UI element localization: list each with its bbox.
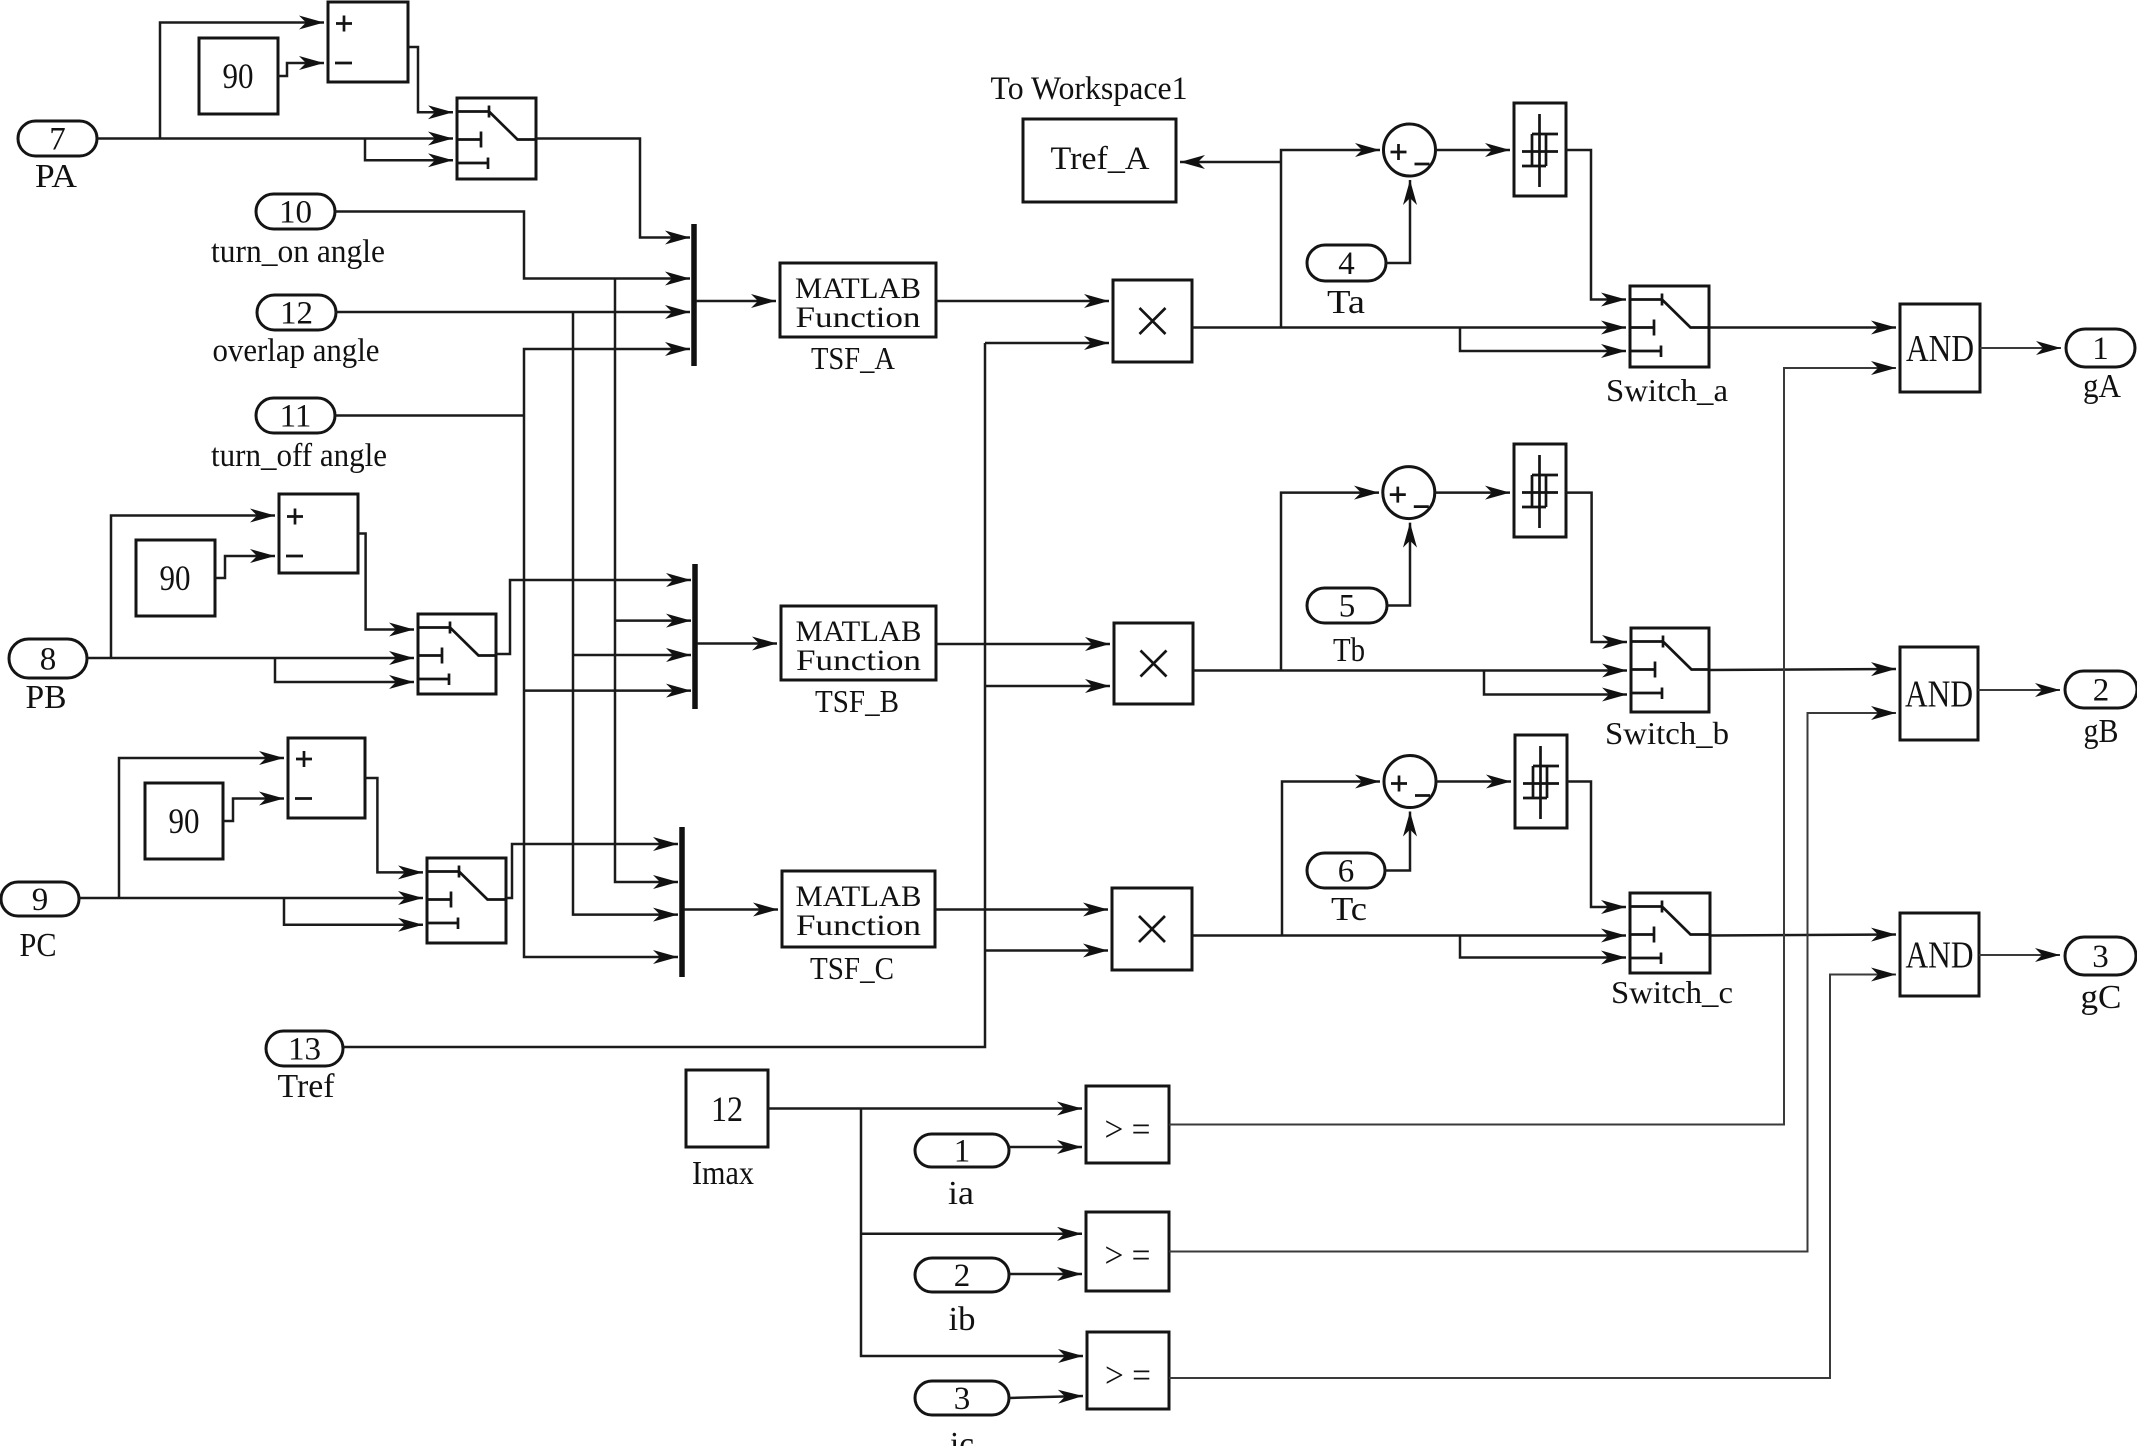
input port 4 xyxy=(1307,245,1386,281)
Imax bus vertical xyxy=(861,1109,1083,1357)
To Workspace block Tref_A xyxy=(1023,119,1176,202)
input port 11 xyxy=(256,398,335,433)
constant 90 C xyxy=(145,783,223,859)
wire ic to GE c input 2 xyxy=(1009,1396,1083,1398)
wire GE c to AND C input 2 xyxy=(1169,975,1896,1379)
svg-text:Tref_A: Tref_A xyxy=(1051,141,1150,177)
svg-text:8: 8 xyxy=(40,642,57,678)
svg-text:ic: ic xyxy=(950,1426,974,1446)
svg-text:3: 3 xyxy=(2092,939,2109,975)
wire sum C to switch input 1 xyxy=(365,778,423,872)
wire TSF_C to product C xyxy=(935,908,1108,911)
wire mux B to MATLAB TSF_B xyxy=(697,642,777,645)
comparator GE a xyxy=(1086,1086,1169,1163)
wire port 11 to turn_off bus xyxy=(335,414,524,417)
wire constant 90 B to sum minus xyxy=(215,556,275,578)
wire GE b to AND B input 2 xyxy=(1169,713,1896,1252)
overlap bus vertical xyxy=(573,312,678,915)
wire feedback riser to sum plus B xyxy=(111,516,275,659)
wire feedback riser to sum plus C xyxy=(119,758,284,898)
wire port 10 to mux A input 2 xyxy=(335,212,690,279)
wire riser product C to sum circle C xyxy=(1282,782,1380,936)
svg-text:2: 2 xyxy=(954,1258,971,1294)
svg-text:12: 12 xyxy=(280,296,313,332)
wire junction to Switch_a input 3 xyxy=(1460,328,1626,352)
input port 6 xyxy=(1307,853,1385,888)
wire Tref to product C input 2 xyxy=(985,949,1108,952)
svg-text:12: 12 xyxy=(711,1089,743,1129)
svg-text:gA: gA xyxy=(2083,368,2121,405)
wire port 6 to sum circle C xyxy=(1385,812,1410,871)
svg-text:90: 90 xyxy=(169,801,200,841)
wire port 4 to sum circle A xyxy=(1386,180,1410,263)
sum block C xyxy=(288,738,365,818)
input port 1 ia xyxy=(915,1134,1009,1167)
wire GE a to AND A input 2 xyxy=(1169,368,1896,1125)
svg-text:1: 1 xyxy=(2092,331,2109,367)
wire turn_off bus to mux B input 4 xyxy=(524,689,691,692)
wire switch PA to mux A input 1 xyxy=(536,139,690,238)
wire product C to Switch_c input 2 xyxy=(1192,934,1626,937)
wire sum circle B to relay B xyxy=(1435,491,1510,494)
svg-text:AND: AND xyxy=(1906,935,1974,977)
wire turn_off bus to mux A input 4 xyxy=(524,349,690,416)
wire Switch_b to AND B xyxy=(1709,669,1896,670)
product C xyxy=(1112,888,1192,970)
svg-text:PC: PC xyxy=(20,927,57,964)
wire relay B to Switch_b input 1 xyxy=(1566,493,1627,642)
wire Tref to product A input 2 xyxy=(985,342,1109,345)
relay C xyxy=(1515,735,1567,828)
wire constant 90 C to sum minus xyxy=(223,799,284,822)
svg-text:TSF_C: TSF_C xyxy=(810,950,894,986)
MATLAB Function TSF_A xyxy=(780,263,936,337)
svg-text:> =: > = xyxy=(1105,1355,1151,1395)
wire port 12 to mux A input 3 xyxy=(335,311,690,314)
switch PC xyxy=(427,858,506,943)
svg-text:7: 7 xyxy=(49,122,66,158)
svg-text:5: 5 xyxy=(1339,589,1356,625)
input port 9 xyxy=(1,882,79,916)
svg-text:10: 10 xyxy=(279,195,312,231)
wire sum circle A to relay A xyxy=(1436,149,1511,152)
wire Tref to products riser xyxy=(343,343,985,1047)
wire AND C to output 3 xyxy=(1979,954,2060,956)
input port 10 xyxy=(256,194,335,229)
product B xyxy=(1114,623,1193,704)
svg-text:13: 13 xyxy=(288,1032,321,1068)
wire mux C to MATLAB TSF_C xyxy=(684,908,778,911)
input port 7 xyxy=(18,121,97,156)
svg-text:ia: ia xyxy=(948,1175,974,1212)
wire switch PC to mux C input 1 xyxy=(506,844,678,898)
svg-text:Tref: Tref xyxy=(278,1068,336,1105)
sum block B xyxy=(279,494,358,573)
output port 3 xyxy=(2065,937,2136,975)
wire product B to Switch_b input 2 xyxy=(1193,669,1627,672)
MATLAB Function TSF_C xyxy=(782,871,935,947)
svg-text:overlap angle: overlap angle xyxy=(213,333,380,369)
wire constant 90 A to sum minus xyxy=(278,63,324,76)
wire mux A to MATLAB TSF_A xyxy=(696,300,776,303)
wire junction to switch input 3 C xyxy=(284,898,423,925)
wire TSF_B to product B xyxy=(936,643,1110,646)
constant 90 B xyxy=(136,540,215,616)
svg-text:3: 3 xyxy=(954,1381,971,1417)
svg-text:9: 9 xyxy=(32,882,49,918)
wire riser product A to sum circle A xyxy=(1281,150,1380,328)
MATLAB Function TSF_B xyxy=(781,606,936,680)
svg-text:PB: PB xyxy=(26,679,67,716)
wire port 7 to switch input 2 xyxy=(97,137,453,140)
input port 12 xyxy=(257,295,336,330)
output port 1 xyxy=(2066,329,2135,367)
comparator GE c xyxy=(1087,1332,1169,1409)
svg-text:gC: gC xyxy=(2081,979,2122,1016)
svg-text:gB: gB xyxy=(2084,713,2119,750)
wire switch PB to mux B input 1 xyxy=(496,580,691,654)
sum circle C xyxy=(1384,756,1436,808)
svg-text:11: 11 xyxy=(280,399,312,435)
switch PB xyxy=(418,614,496,694)
wire Tref to product B input 2 xyxy=(985,685,1110,688)
comparator GE b xyxy=(1086,1212,1169,1291)
mux A xyxy=(691,224,697,366)
svg-text:TSF_B: TSF_B xyxy=(815,683,899,719)
constant 90 A xyxy=(199,38,278,114)
svg-text:6: 6 xyxy=(1338,854,1355,890)
sum circle A xyxy=(1384,124,1436,176)
wire sum A to switch input 1 xyxy=(408,47,453,112)
AND C xyxy=(1900,913,1979,996)
wire junction to Switch_c input 3 xyxy=(1460,936,1626,958)
svg-text:turn_off angle: turn_off angle xyxy=(211,438,387,474)
svg-text:> =: > = xyxy=(1105,1109,1151,1149)
relay A xyxy=(1514,103,1566,196)
wire port 8 to switch input 2 xyxy=(87,657,414,660)
product A xyxy=(1113,280,1192,362)
svg-text:Ta: Ta xyxy=(1327,284,1365,321)
wire overlap bus to mux B input 3 xyxy=(573,654,691,657)
output port 2 xyxy=(2065,671,2137,708)
input port 13 xyxy=(266,1031,343,1066)
wire Imax bus to GE b input 1 xyxy=(861,1233,1082,1236)
input port 2 ib xyxy=(915,1258,1009,1292)
Switch_c xyxy=(1630,893,1710,973)
Switch_b xyxy=(1631,628,1709,712)
wire sum circle C to relay C xyxy=(1436,780,1511,783)
AND B xyxy=(1900,647,1978,740)
wire Imax to GE a input 1 xyxy=(768,1107,1082,1110)
wire junction to switch input 3 B xyxy=(275,658,414,682)
svg-text:Switch_b: Switch_b xyxy=(1605,715,1729,751)
wire feedback riser to sum plus xyxy=(160,23,324,139)
wire relay C to Switch_c input 1 xyxy=(1567,782,1626,908)
turn_on bus vertical xyxy=(615,279,678,883)
wire Switch_c to AND C xyxy=(1710,935,1896,936)
svg-text:90: 90 xyxy=(160,558,191,598)
switch PA xyxy=(457,98,536,179)
svg-text:To Workspace1: To Workspace1 xyxy=(991,71,1188,107)
input port 5 xyxy=(1307,588,1387,623)
wire ib to GE b input 2 xyxy=(1009,1273,1082,1276)
wire riser product B to sum circle B xyxy=(1281,493,1379,671)
svg-text:Tc: Tc xyxy=(1331,891,1367,928)
wire AND B to output 2 xyxy=(1978,689,2060,691)
svg-text:turn_on angle: turn_on angle xyxy=(211,234,385,270)
svg-text:2: 2 xyxy=(2093,673,2110,709)
AND A xyxy=(1900,304,1980,392)
svg-text:1: 1 xyxy=(954,1134,971,1170)
wire Switch_a to AND A xyxy=(1709,326,1896,329)
mux C xyxy=(679,827,685,977)
svg-text:Tb: Tb xyxy=(1333,632,1365,669)
svg-text:Function: Function xyxy=(796,909,921,942)
svg-text:Function: Function xyxy=(796,644,921,677)
wire TSF_A to product A xyxy=(936,300,1109,303)
svg-text:Switch_a: Switch_a xyxy=(1606,372,1728,408)
wire turn_on bus to mux B input 2 xyxy=(615,619,691,622)
svg-text:AND: AND xyxy=(1906,328,1974,370)
sum circle B xyxy=(1383,467,1435,519)
input port 8 xyxy=(9,639,87,678)
wire AND A to output 1 xyxy=(1980,347,2061,349)
Switch_a xyxy=(1630,286,1709,367)
svg-text:Switch_c: Switch_c xyxy=(1611,974,1733,1010)
wire ia to GE a input 2 xyxy=(1009,1146,1082,1149)
relay B xyxy=(1514,444,1566,537)
wire relay A to Switch_a input 1 xyxy=(1566,150,1626,300)
wire junction to switch input 3 xyxy=(365,139,453,161)
wire junction to Switch_b input 3 xyxy=(1484,671,1627,695)
sum block A xyxy=(328,2,408,82)
svg-text:4: 4 xyxy=(1338,246,1355,282)
wire product A to Switch_a input 2 xyxy=(1192,326,1626,329)
wire port 5 to sum circle B xyxy=(1387,523,1410,606)
svg-text:Imax: Imax xyxy=(692,1155,754,1192)
wire port 9 to switch input 2 xyxy=(79,897,423,900)
svg-text:90: 90 xyxy=(223,56,254,96)
wire to To Workspace Tref_A xyxy=(1180,161,1281,164)
svg-text:Function: Function xyxy=(796,301,921,334)
svg-text:> =: > = xyxy=(1105,1235,1151,1275)
mux B xyxy=(692,564,698,709)
constant Imax 12 xyxy=(686,1070,768,1147)
input port 3 ic xyxy=(915,1381,1009,1415)
svg-text:ib: ib xyxy=(949,1301,976,1338)
svg-text:AND: AND xyxy=(1905,674,1973,716)
svg-text:TSF_A: TSF_A xyxy=(811,340,895,376)
wire sum B to switch input 1 xyxy=(358,534,414,630)
svg-text:PA: PA xyxy=(35,158,77,195)
turn_off bus vertical xyxy=(524,416,678,958)
